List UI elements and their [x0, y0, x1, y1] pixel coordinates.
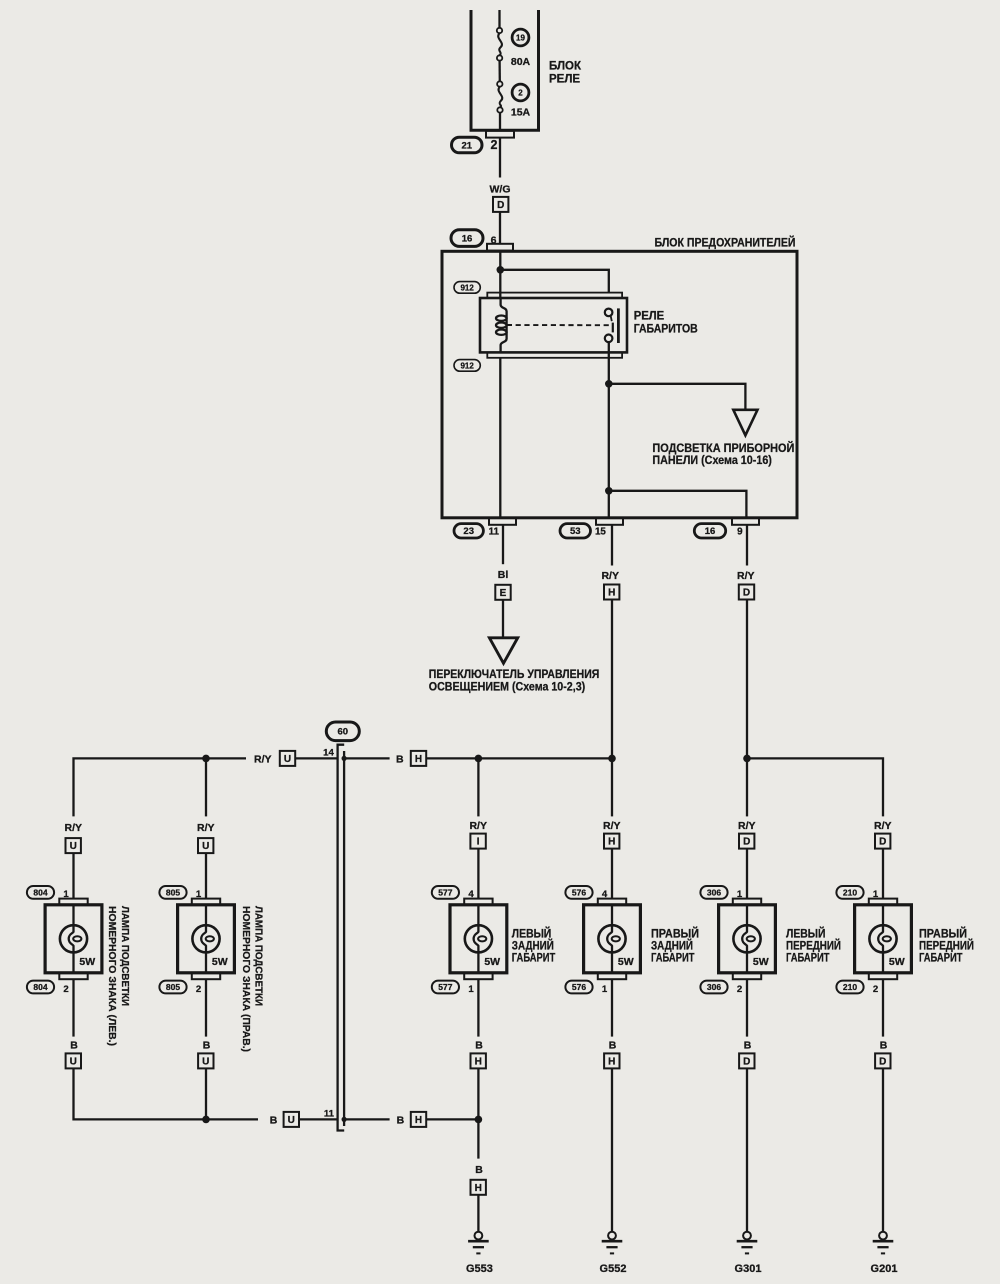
svg-text:РЕЛЕ: РЕЛЕ: [634, 308, 665, 322]
wire to connector 60 pin 11: [299, 1118, 337, 1120]
wire H down to bus: [611, 600, 613, 759]
svg-text:R/Y: R/Y: [874, 820, 892, 832]
junction node: [605, 487, 613, 495]
relay contact lower: [605, 335, 613, 343]
svg-text:D: D: [743, 588, 750, 599]
connector letter box H: [471, 1180, 486, 1195]
lamp 5W (right rear clearance/license lamp): [584, 899, 641, 980]
relay coil: [501, 298, 507, 352]
svg-text:H: H: [415, 754, 422, 765]
svg-text:B: B: [744, 1039, 752, 1051]
svg-text:R/Y: R/Y: [197, 822, 215, 834]
wire right front lamp ground: [882, 1068, 884, 1231]
svg-text:1: 1: [196, 889, 202, 900]
connector oval 804 upper: [27, 886, 54, 899]
wire left rear lamp ground: [477, 1068, 479, 1158]
svg-text:B: B: [396, 753, 404, 765]
svg-text:80A: 80A: [511, 56, 531, 68]
label РЕЛЕ ГАБАРИТОВ: [634, 308, 698, 335]
junction node: [475, 1116, 483, 1124]
wire into lamp лево-номерная: [72, 853, 74, 899]
wire lamp ground x=73.5: [72, 979, 74, 1036]
svg-text:306: 306: [707, 982, 721, 992]
connector oval 577 lower: [432, 981, 459, 994]
svg-text:ЛАМПА ПОДСВЕТКИ: ЛАМПА ПОДСВЕТКИ: [252, 906, 263, 1006]
svg-text:НОМЕРНОГО ЗНАКА (ЛЕВ.): НОМЕРНОГО ЗНАКА (ЛЕВ.): [106, 906, 117, 1046]
connector oval 21: [452, 137, 483, 153]
svg-text:5W: 5W: [618, 956, 634, 968]
wire lamp ground x=206: [205, 979, 207, 1036]
svg-text:H: H: [608, 1057, 615, 1068]
svg-text:U: U: [288, 1115, 295, 1126]
wire: relay contact down: [608, 342, 610, 518]
lamp 5W (right license clearance/license lamp): [178, 899, 235, 980]
svg-text:D: D: [879, 1057, 886, 1068]
connector letter box U: [66, 1053, 81, 1068]
junction node: [342, 756, 347, 761]
svg-text:ГАБАРИТОВ: ГАБАРИТОВ: [634, 321, 698, 335]
svg-text:D: D: [497, 200, 504, 211]
fuse box pin tab 15: [596, 518, 623, 525]
svg-text:9: 9: [737, 527, 743, 538]
svg-text:ПАНЕЛИ (Схема 10-16): ПАНЕЛИ (Схема 10-16): [652, 453, 772, 467]
connector oval 577 upper: [432, 886, 459, 899]
upper contact tail: [611, 315, 612, 321]
svg-text:2: 2: [491, 138, 498, 152]
svg-text:R/Y: R/Y: [254, 753, 272, 765]
svg-text:H: H: [608, 588, 615, 599]
svg-text:ОСВЕЩЕНИЕМ (Схема 10-2,3): ОСВЕЩЕНИЕМ (Схема 10-2,3): [429, 679, 585, 693]
connector 60 pin line: [343, 751, 345, 1126]
connector letter box D: [739, 834, 754, 849]
wire front lamp bus: [747, 758, 883, 816]
svg-text:60: 60: [338, 727, 349, 738]
wire left front lamp ground: [746, 1068, 748, 1231]
svg-text:РЕЛЕ: РЕЛЕ: [549, 73, 580, 85]
svg-text:R/Y: R/Y: [737, 570, 755, 582]
svg-text:912: 912: [460, 361, 474, 370]
fuse box БЛОК ПРЕДОХРАНИТЕЛЕЙ outline: [442, 251, 797, 518]
connector letter box I: [470, 834, 485, 849]
svg-text:23: 23: [463, 526, 474, 537]
junction node: [497, 266, 505, 274]
connector letter box H: [604, 1053, 619, 1068]
wire down from relay block: [499, 138, 501, 178]
connector oval 306 lower: [700, 981, 727, 994]
connector oval 805 upper: [159, 886, 186, 899]
svg-text:B: B: [203, 1039, 211, 1051]
ground G552: [600, 1232, 627, 1275]
lamp 5W (left rear clearance/license lamp): [450, 899, 507, 980]
connector letter box H: [471, 1053, 486, 1068]
wire to relay block pin 2: [499, 113, 501, 131]
svg-text:15: 15: [595, 527, 606, 538]
svg-text:2: 2: [196, 984, 201, 995]
connector oval 16: [451, 230, 483, 247]
connector oval 804 lower: [27, 981, 54, 994]
svg-text:5W: 5W: [889, 956, 905, 968]
wire from connector 60 to rear ground: [344, 1118, 390, 1120]
wire to left rear lamp ground wire: [426, 1118, 478, 1120]
svg-text:19: 19: [516, 34, 525, 43]
svg-text:804: 804: [33, 982, 47, 992]
wire between fuses: [498, 61, 500, 82]
relay armature dashed link: [507, 324, 610, 326]
svg-text:B: B: [397, 1114, 405, 1126]
svg-text:Bl: Bl: [498, 569, 509, 581]
wire lamp ground x=747: [746, 979, 748, 1036]
svg-text:1: 1: [63, 889, 69, 900]
junction node: [202, 1116, 210, 1124]
relay contact upper: [605, 309, 613, 317]
svg-text:2: 2: [518, 89, 523, 98]
svg-text:U: U: [202, 1057, 209, 1068]
label ЛАМПА ПОДСВЕТКИ НОМЕРНОГО ЗНАКА (ЛЕВ.) vertical: [106, 906, 130, 1046]
connector letter box U: [198, 838, 213, 853]
connector letter box D: [875, 834, 890, 849]
wire into lamp правый передний: [882, 849, 884, 899]
svg-text:ГАБАРИТ: ГАБАРИТ: [919, 951, 963, 965]
wire feed право-номерная: [205, 758, 207, 816]
svg-text:G301: G301: [735, 1263, 762, 1275]
wire: license lamp bus left: [74, 758, 247, 816]
svg-text:W/G: W/G: [490, 184, 511, 196]
svg-text:H: H: [475, 1183, 482, 1194]
svg-text:B: B: [475, 1164, 483, 1176]
wire license left lamp to ground bus: [74, 1068, 259, 1119]
connector letter box D: [493, 197, 508, 212]
lamp 5W (right front clearance/license lamp): [855, 899, 912, 980]
wire to ground G553: [477, 1195, 479, 1232]
connector letter box H: [411, 1112, 426, 1127]
label ПОДСВЕТКА ПРИБОРНОЙ ПАНЕЛИ: [652, 440, 794, 467]
wire into lamp левый передний: [746, 849, 748, 899]
svg-text:1: 1: [468, 984, 474, 995]
connector letter box U: [198, 1053, 213, 1068]
wire branch to instrument panel feed: [609, 384, 746, 410]
svg-text:2: 2: [737, 984, 742, 995]
fuse box pin tab 11: [489, 518, 516, 525]
wire from D to fuse box: [499, 212, 501, 244]
svg-text:ГАБАРИТ: ГАБАРИТ: [512, 951, 556, 965]
svg-text:15A: 15A: [511, 106, 531, 118]
svg-text:1: 1: [737, 889, 743, 900]
svg-text:912: 912: [460, 283, 474, 292]
connector letter box H: [604, 834, 619, 849]
connector letter box U: [284, 1112, 299, 1127]
relay block БЛОК РЕЛЕ (open-top box): [470, 10, 541, 132]
svg-text:306: 306: [707, 887, 721, 897]
wire rear lamp bus: [426, 757, 612, 759]
connector letter box U: [66, 838, 81, 853]
svg-text:ГАБАРИТ: ГАБАРИТ: [651, 951, 695, 965]
junction node: [608, 755, 616, 763]
svg-text:2: 2: [873, 984, 878, 995]
svg-text:210: 210: [843, 982, 857, 992]
wire lamp ground x=612: [611, 979, 613, 1036]
svg-text:БЛОК ПРЕДОХРАНИТЕЛЕЙ: БЛОК ПРЕДОХРАНИТЕЛЕЙ: [655, 234, 796, 249]
svg-text:B: B: [270, 1114, 278, 1126]
connector oval 16 lower: [694, 524, 725, 538]
connector oval 805 lower: [159, 981, 186, 994]
connector oval 210 lower: [836, 981, 863, 994]
svg-text:D: D: [743, 837, 750, 848]
svg-text:G201: G201: [871, 1263, 898, 1275]
wire: pin 6 down to relay coil: [499, 250, 501, 298]
svg-text:R/Y: R/Y: [601, 570, 619, 582]
connector letter box D: [739, 585, 754, 600]
label ПРАВЫЙ ПЕРЕДНИЙ ГАБАРИТ: [919, 925, 974, 964]
svg-text:E: E: [500, 588, 507, 599]
ground G201: [871, 1232, 898, 1275]
connector oval 576 lower: [565, 981, 592, 994]
wire branch to pin 9: [609, 491, 747, 518]
wire branch to relay contact: [500, 270, 609, 293]
svg-text:21: 21: [461, 140, 472, 151]
junction node: [743, 755, 751, 763]
svg-text:БЛОК: БЛОК: [549, 60, 582, 72]
junction node: [202, 755, 210, 763]
armature tick: [612, 323, 614, 333]
svg-text:U: U: [70, 1057, 77, 1068]
svg-text:53: 53: [570, 526, 581, 537]
connector oval 912 lower: [454, 360, 480, 372]
svg-text:U: U: [284, 754, 291, 765]
svg-text:11: 11: [489, 527, 500, 538]
wire to connector 60 pin 14: [295, 757, 336, 759]
wire from connector 60 right: [344, 757, 390, 759]
svg-text:16: 16: [705, 526, 716, 537]
svg-text:210: 210: [843, 887, 857, 897]
label ПЕРЕКЛЮЧАТЕЛЬ УПРАВЛЕНИЯ ОСВЕЩЕНИЕМ: [429, 667, 600, 693]
svg-text:805: 805: [166, 887, 180, 897]
fuse 2 15A: [497, 81, 503, 112]
svg-text:B: B: [609, 1039, 617, 1051]
svg-text:804: 804: [33, 887, 47, 897]
svg-text:1: 1: [873, 889, 879, 900]
svg-text:805: 805: [166, 982, 180, 992]
svg-text:B: B: [475, 1039, 483, 1051]
svg-text:H: H: [608, 837, 615, 848]
connector letter box H: [604, 585, 619, 600]
connector letter box E: [495, 585, 510, 600]
connector oval 23: [454, 524, 483, 538]
wire feed левый передний: [746, 758, 748, 816]
svg-text:R/Y: R/Y: [603, 820, 621, 832]
wire into lamp правый задний: [611, 849, 613, 899]
svg-text:B: B: [880, 1039, 888, 1051]
svg-text:R/Y: R/Y: [469, 820, 487, 832]
svg-text:H: H: [415, 1115, 422, 1126]
svg-text:I: I: [477, 837, 480, 848]
svg-text:5W: 5W: [484, 956, 500, 968]
wire feed левый задний: [477, 758, 479, 816]
ground G301: [735, 1232, 762, 1275]
wire pin 15 down: [611, 525, 613, 566]
fuse box pin tab 9: [732, 518, 759, 525]
svg-text:ГАБАРИТ: ГАБАРИТ: [786, 951, 830, 965]
junction node: [475, 755, 483, 763]
svg-text:5W: 5W: [79, 956, 95, 968]
wire feed правый задний: [611, 758, 613, 816]
wire pin 9 down: [746, 525, 748, 566]
wire pin 11 down: [502, 525, 504, 564]
svg-text:576: 576: [572, 887, 586, 897]
svg-text:H: H: [475, 1057, 482, 1068]
fuse 19 80A (fusible link symbol): [497, 28, 503, 61]
svg-text:G553: G553: [466, 1263, 493, 1275]
fuse box top pin tab: [487, 244, 513, 251]
svg-text:НОМЕРНОГО ЗНАКА (ПРАВ.): НОМЕРНОГО ЗНАКА (ПРАВ.): [240, 906, 251, 1052]
label ЛЕВЫЙ ЗАДНИЙ ГАБАРИТ: [512, 925, 556, 964]
svg-text:11: 11: [324, 1108, 335, 1119]
svg-text:2: 2: [63, 984, 68, 995]
relay contact bar: [617, 308, 620, 343]
wire D down to bus: [746, 600, 748, 759]
junction node: [342, 1117, 347, 1122]
arrow to light control switch: [489, 638, 517, 664]
label ЛЕВЫЙ ПЕРЕДНИЙ ГАБАРИТ: [786, 925, 841, 964]
label ПРАВЫЙ ЗАДНИЙ ГАБАРИТ: [651, 925, 699, 964]
svg-text:U: U: [202, 841, 209, 852]
svg-text:577: 577: [438, 887, 452, 897]
relay top terminal strip: [487, 293, 622, 298]
svg-text:U: U: [70, 841, 77, 852]
svg-text:D: D: [743, 1057, 750, 1068]
circled fuse number 2: [512, 84, 529, 101]
svg-text:577: 577: [438, 982, 452, 992]
svg-text:5W: 5W: [753, 956, 769, 968]
connector letter box U: [280, 751, 295, 766]
svg-text:G552: G552: [600, 1263, 627, 1275]
wire license right lamp to ground bus: [205, 1068, 207, 1119]
svg-text:4: 4: [468, 889, 474, 900]
label ЛАМПА ПОДСВЕТКИ НОМЕРНОГО ЗНАКА (ПРАВ.) vertical: [240, 906, 264, 1052]
lamp 5W (left front clearance/license lamp): [719, 899, 776, 980]
relay РЕЛЕ ГАБАРИТОВ box: [480, 298, 627, 352]
svg-text:576: 576: [572, 982, 586, 992]
connector oval 306 upper: [700, 886, 727, 899]
arrow to instrument panel lighting: [733, 410, 757, 436]
connector oval 53: [560, 524, 591, 538]
svg-text:1: 1: [602, 984, 608, 995]
relay bottom terminal strip: [487, 352, 622, 357]
wire: relay coil to pin 11: [499, 358, 501, 518]
svg-text:D: D: [879, 837, 886, 848]
svg-text:6: 6: [491, 235, 497, 247]
svg-text:5W: 5W: [212, 956, 228, 968]
connector oval 912 upper: [454, 282, 480, 294]
connector letter box D: [739, 1053, 754, 1068]
svg-text:B: B: [70, 1039, 78, 1051]
circled fuse number 19: [512, 29, 529, 46]
wire lamp ground x=883: [882, 979, 884, 1036]
wire into lamp левый задний: [477, 849, 479, 899]
svg-text:R/Y: R/Y: [65, 822, 83, 834]
ground G553: [466, 1232, 493, 1275]
connector oval 210 upper: [836, 886, 863, 899]
wire right rear lamp ground: [611, 1068, 613, 1231]
label БЛОК РЕЛЕ: [549, 60, 582, 85]
connector letter box H: [411, 751, 426, 766]
svg-text:16: 16: [462, 234, 473, 245]
wire to light switch: [502, 600, 504, 638]
svg-text:ЛАМПА ПОДСВЕТКИ: ЛАМПА ПОДСВЕТКИ: [119, 906, 130, 1006]
connector oval 60: [326, 722, 359, 741]
lamp 5W (G? left license clearance/license lamp): [45, 899, 102, 980]
connector letter box D: [875, 1053, 890, 1068]
svg-text:4: 4: [602, 889, 608, 900]
relay block pin tab: [486, 131, 514, 138]
junction node: [605, 380, 613, 388]
connector oval 576 upper: [565, 886, 592, 899]
wire lamp ground x=478.4: [477, 979, 479, 1036]
svg-text:14: 14: [323, 748, 334, 759]
wire into lamp право-номерная: [205, 853, 207, 899]
connector 60 bracket: [338, 745, 345, 1131]
svg-text:R/Y: R/Y: [738, 820, 756, 832]
wire: battery feed into relay block: [498, 10, 500, 28]
